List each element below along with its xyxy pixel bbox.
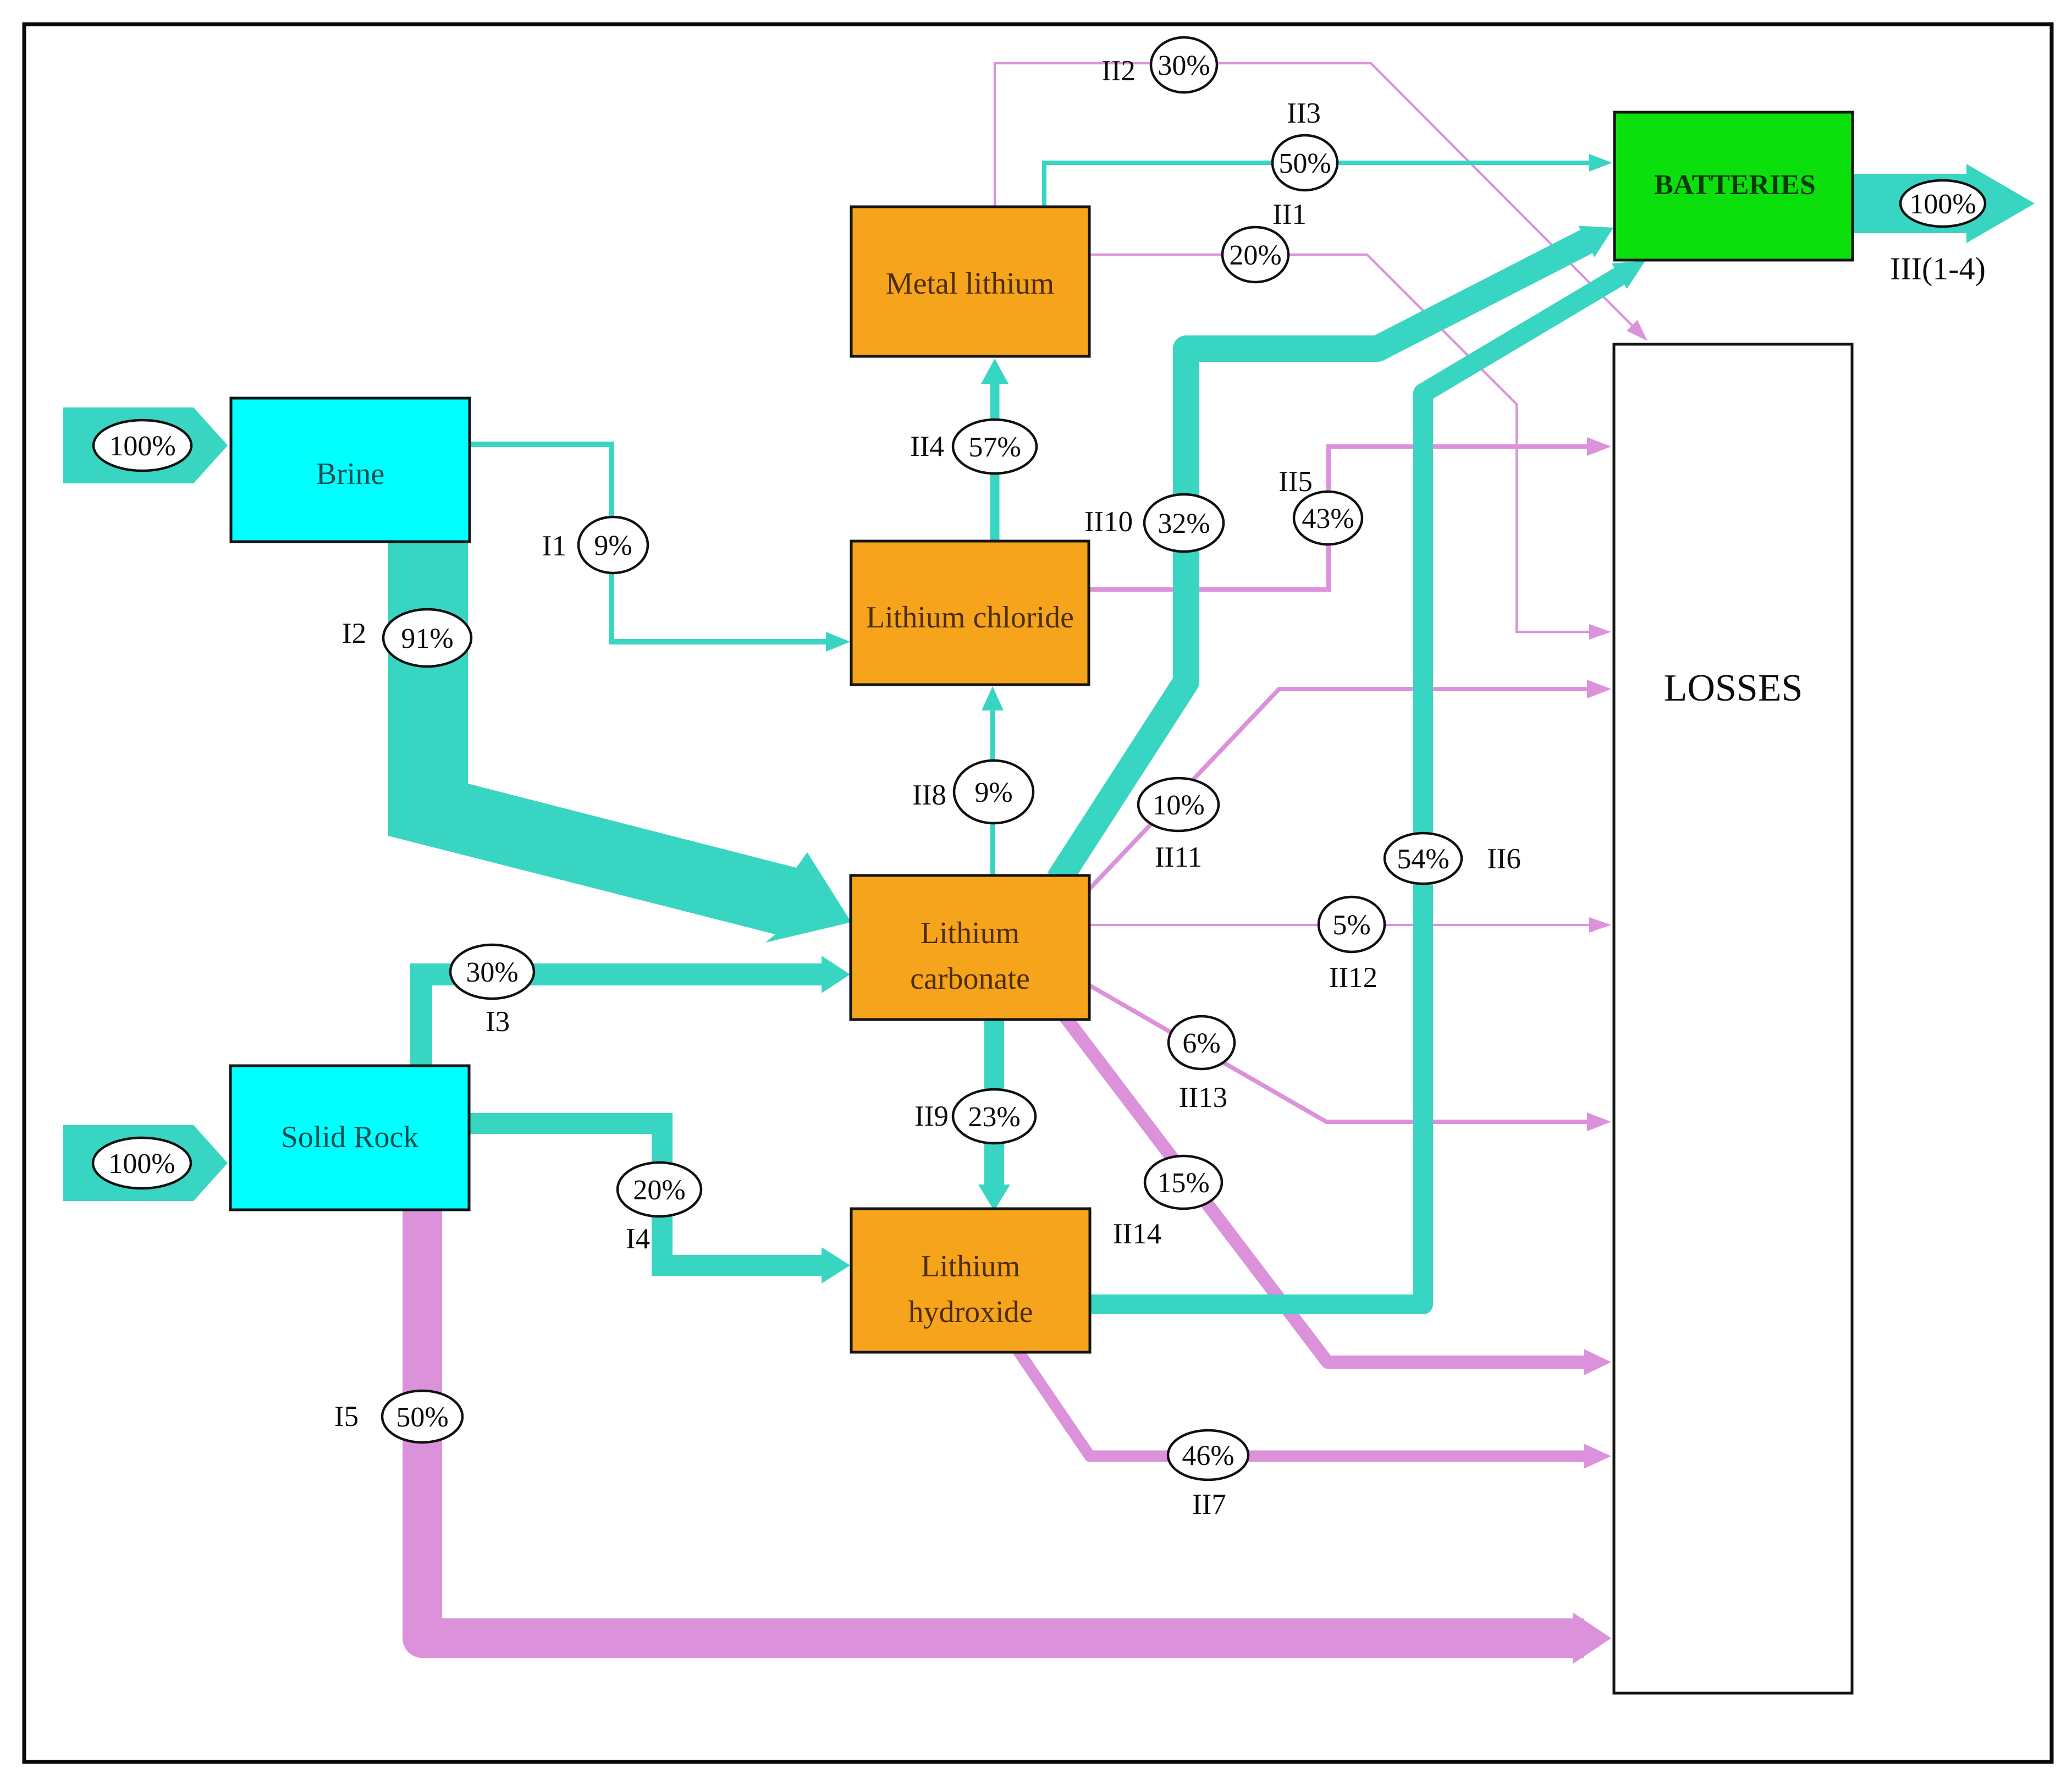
svg-text:I2: I2 <box>342 618 366 649</box>
label 9% on flow I1 <box>578 517 648 573</box>
svg-text:III(1-4): III(1-4) <box>1890 251 1986 287</box>
svg-text:II1: II1 <box>1272 199 1307 230</box>
label 10% on flow II11 <box>1138 778 1219 831</box>
label 100% on Brine input <box>93 420 191 471</box>
svg-text:II4: II4 <box>910 431 944 462</box>
flow I5 Solid Rock to LOSSES band <box>422 1207 1584 1638</box>
svg-text:5%: 5% <box>1332 910 1370 941</box>
svg-text:II6: II6 <box>1487 843 1521 875</box>
box Lithium hydroxide <box>851 1209 1090 1352</box>
label 9% on flow II8 <box>954 761 1033 823</box>
svg-text:II5: II5 <box>1279 466 1313 498</box>
svg-text:LOSSES: LOSSES <box>1664 667 1803 709</box>
svg-text:50%: 50% <box>1279 148 1331 179</box>
flow II14 Lithium carbonate to LOSSES band <box>1065 1016 1588 1362</box>
svg-text:30%: 30% <box>466 957 518 988</box>
box Metal lithium <box>851 207 1089 356</box>
svg-text:I5: I5 <box>334 1401 359 1433</box>
box Solid Rock <box>230 1066 469 1210</box>
flow II14 Lithium carbonate to LOSSES head <box>1584 1349 1611 1375</box>
svg-text:BATTERIES: BATTERIES <box>1654 169 1816 201</box>
label 15% on flow II14 <box>1145 1156 1222 1209</box>
svg-text:II7: II7 <box>1192 1489 1226 1520</box>
flow II1 Metal lithium to LOSSES band <box>1088 255 1592 632</box>
svg-text:15%: 15% <box>1157 1167 1209 1199</box>
flow II13 Lithium carbonate to LOSSES head <box>1587 1112 1611 1131</box>
svg-text:20%: 20% <box>1229 240 1281 271</box>
flow II9 Lithium carbonate to Lithium hydroxide band <box>984 1020 1004 1188</box>
svg-text:9%: 9% <box>594 530 632 561</box>
svg-text:II11: II11 <box>1155 841 1202 873</box>
svg-text:II13: II13 <box>1179 1082 1227 1114</box>
flow II7 Lithium hydroxide to LOSSES band <box>1016 1347 1588 1456</box>
label 100% on Solid Rock input <box>93 1138 191 1188</box>
flow II1 Metal lithium to LOSSES head <box>1589 624 1611 640</box>
svg-text:II2: II2 <box>1101 55 1136 87</box>
svg-text:6%: 6% <box>1182 1028 1220 1059</box>
flow II4 Lithium chloride to Metal lithium band <box>990 380 1000 541</box>
label 23% on flow II9 <box>953 1089 1035 1143</box>
box LOSSES <box>1614 344 1852 1693</box>
flow II5 Lithium chloride to LOSSES band <box>1088 447 1591 590</box>
label 43% on flow II5 <box>1294 492 1362 544</box>
flow II2 Metal lithium to LOSSES head <box>1627 320 1647 341</box>
svg-text:57%: 57% <box>968 432 1021 463</box>
label 30% on flow I3 <box>450 945 534 999</box>
flow II4 Lithium chloride to Metal lithium head <box>981 359 1009 384</box>
label 100% on output <box>1900 180 1985 227</box>
flow II3 Metal lithium to BATTERIES band <box>1044 163 1592 209</box>
flow I3 Solid Rock to Lithium carbonate head <box>822 956 850 993</box>
box Lithium carbonate <box>851 875 1089 1020</box>
label 32% on flow II10 <box>1144 494 1224 552</box>
input arrow 100% into Brine <box>63 407 228 483</box>
label 5% on flow II12 <box>1319 897 1385 952</box>
flow II8 Lithium carbonate to Lithium chloride head <box>982 686 1004 710</box>
flow I4 Solid Rock to Lithium hydroxide band <box>469 1123 826 1265</box>
flow I1 Brine to Lithium chloride head <box>826 632 850 652</box>
label 50% on flow I5 <box>382 1391 462 1442</box>
label 46% on flow II7 <box>1168 1430 1248 1480</box>
flow II3 Metal lithium to BATTERIES head <box>1589 154 1612 172</box>
svg-text:43%: 43% <box>1302 503 1354 535</box>
svg-text:II9: II9 <box>914 1100 949 1132</box>
svg-text:Brine: Brine <box>316 457 384 491</box>
label 50% on flow II3 <box>1272 135 1337 190</box>
svg-text:100%: 100% <box>108 1148 175 1180</box>
label 6% on flow II13 <box>1169 1016 1235 1069</box>
svg-text:Metal lithium: Metal lithium <box>886 267 1054 301</box>
flow I4 Solid Rock to Lithium hydroxide head <box>822 1247 850 1283</box>
svg-text:32%: 32% <box>1158 508 1210 539</box>
box Brine <box>231 398 470 542</box>
flow II11 Lithium carbonate to LOSSES band <box>1088 689 1591 891</box>
svg-text:54%: 54% <box>1397 844 1449 875</box>
svg-text:I4: I4 <box>626 1223 650 1255</box>
svg-text:30%: 30% <box>1158 50 1210 81</box>
label 20% on flow I4 <box>618 1163 701 1216</box>
svg-text:Lithium chloride: Lithium chloride <box>866 600 1074 635</box>
flow I2 Brine to Lithium carbonate <box>388 542 851 943</box>
svg-text:II12: II12 <box>1329 962 1377 994</box>
svg-text:II8: II8 <box>912 779 946 811</box>
svg-text:II14: II14 <box>1113 1218 1161 1250</box>
label 20% on flow II1 <box>1222 227 1288 282</box>
flow I3 Solid Rock to Lithium carbonate band <box>421 974 826 1068</box>
label 57% on flow II4 <box>953 420 1037 473</box>
flow II6 Lithium hydroxide to BATTERIES band <box>1086 276 1621 1305</box>
svg-text:100%: 100% <box>109 431 175 462</box>
svg-text:9%: 9% <box>974 777 1012 808</box>
svg-text:II10: II10 <box>1084 506 1133 538</box>
svg-text:100%: 100% <box>1909 189 1976 220</box>
flow II10 Lithium carbonate to BATTERIES head <box>1579 226 1614 257</box>
flow I5 arrowhead into LOSSES <box>1573 1612 1611 1664</box>
flow II11 Lithium carbonate to LOSSES head <box>1587 680 1611 698</box>
box BATTERIES <box>1614 112 1853 260</box>
flow II10 Lithium carbonate to BATTERIES band <box>1059 239 1590 880</box>
flow II7 Lithium hydroxide to LOSSES head <box>1584 1444 1611 1469</box>
flow II8 Lithium carbonate to Lithium chloride band <box>990 707 995 875</box>
output arrow 100% from BATTERIES <box>1853 164 2035 243</box>
flow II2 Metal lithium to LOSSES band <box>995 63 1634 328</box>
flow II9 Lithium carbonate to Lithium hydroxide head <box>978 1185 1010 1211</box>
flow II12 Lithium carbonate to LOSSES band <box>1088 924 1592 926</box>
label 30% on flow II2 <box>1151 37 1217 92</box>
svg-text:50%: 50% <box>396 1402 448 1433</box>
label 54% on flow II6 <box>1385 833 1462 884</box>
svg-text:II3: II3 <box>1287 97 1321 129</box>
flow II6 arrowhead into BATTERIES <box>1612 261 1645 289</box>
svg-text:Solid Rock: Solid Rock <box>281 1120 418 1154</box>
flow II12 Lithium carbonate to LOSSES head <box>1589 917 1611 933</box>
flow II13 Lithium carbonate to LOSSES band <box>1088 984 1591 1122</box>
svg-text:10%: 10% <box>1152 790 1204 821</box>
label 91% on flow I2 <box>383 609 471 666</box>
svg-text:46%: 46% <box>1182 1440 1234 1472</box>
input arrow 100% into Solid Rock <box>63 1125 228 1201</box>
flow II5 Lithium chloride to LOSSES head <box>1587 437 1611 456</box>
box Lithium chloride <box>851 541 1089 685</box>
svg-text:I3: I3 <box>486 1006 510 1038</box>
flow I1 Brine to Lithium chloride band <box>470 444 830 642</box>
svg-text:91%: 91% <box>401 623 453 654</box>
svg-text:20%: 20% <box>633 1175 685 1206</box>
svg-text:I1: I1 <box>542 530 566 562</box>
svg-text:23%: 23% <box>968 1101 1020 1133</box>
